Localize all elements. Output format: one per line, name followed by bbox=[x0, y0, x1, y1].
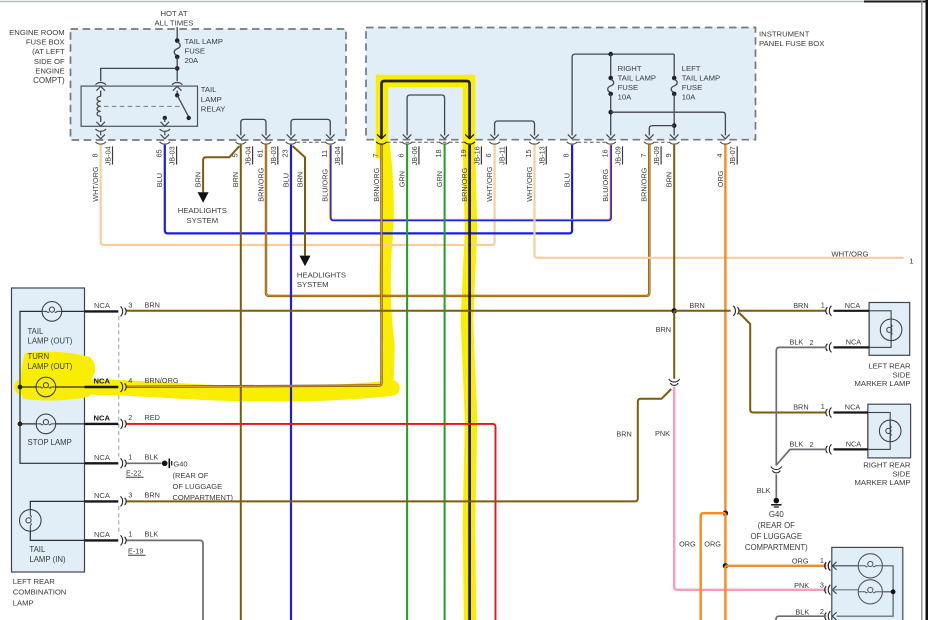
svg-text:1: 1 bbox=[128, 453, 132, 462]
svg-text:TURN: TURN bbox=[28, 352, 50, 361]
wire BLU engine pin65 to IP pin8 bbox=[165, 145, 572, 234]
svg-text:MARKER LAMP: MARKER LAMP bbox=[855, 478, 911, 487]
svg-text:TAIL: TAIL bbox=[28, 327, 45, 336]
svg-text:JB-16: JB-16 bbox=[472, 146, 481, 165]
bulb stop lamp bbox=[36, 414, 56, 434]
svg-text:2: 2 bbox=[820, 607, 824, 616]
svg-text:RED: RED bbox=[145, 413, 160, 422]
svg-text:BLK: BLK bbox=[795, 607, 809, 616]
lamp connector pin 3 BRN bbox=[85, 310, 119, 312]
svg-text:STOP LAMP: STOP LAMP bbox=[28, 438, 72, 447]
wire BRN junction to inline connector bbox=[673, 311, 675, 379]
node fuse feed junction bbox=[608, 52, 613, 57]
lamp internal common wire bbox=[20, 311, 85, 463]
svg-text:(REAR OF: (REAR OF bbox=[758, 521, 795, 530]
inline splice BLK bbox=[771, 467, 782, 470]
svg-text:JB-04: JB-04 bbox=[104, 146, 113, 165]
node right fuse output junction bbox=[608, 110, 613, 115]
svg-text:LEFT: LEFT bbox=[682, 64, 701, 73]
svg-text:GRN: GRN bbox=[435, 171, 444, 187]
page border right bbox=[921, 0, 923, 620]
svg-text:BRN: BRN bbox=[793, 403, 808, 412]
wire to pin 7 jb09 bbox=[649, 126, 674, 136]
wire WHT/ORG engine pin8 to IP pin6 JB-11 bbox=[101, 145, 495, 245]
svg-text:RELAY: RELAY bbox=[201, 104, 226, 113]
wire BLK bottom lamp bbox=[776, 616, 826, 620]
left marker pin1 connector bbox=[829, 306, 831, 316]
wire BRN/ORG IP pin19 down traced black bbox=[468, 145, 471, 620]
relay pin top coil side bbox=[96, 82, 106, 84]
connector in BRN marker feed bbox=[733, 306, 735, 316]
boundary pin 8 IP bbox=[567, 142, 577, 144]
svg-text:JB-11: JB-11 bbox=[497, 146, 506, 165]
svg-text:COMBINATION: COMBINATION bbox=[13, 588, 67, 597]
svg-text:HEADLIGHTS: HEADLIGHTS bbox=[297, 270, 346, 279]
svg-text:FUSE: FUSE bbox=[185, 46, 206, 55]
wire RED stop lamp bbox=[127, 424, 496, 620]
svg-text:BRN/ORG: BRN/ORG bbox=[256, 167, 265, 201]
relay pin bottom switch side bbox=[161, 122, 170, 126]
svg-text:8: 8 bbox=[562, 153, 571, 157]
svg-text:2: 2 bbox=[128, 413, 132, 422]
wire BRN/ORG IP pin7 to turn lamp (highlighted circuit) bbox=[127, 145, 382, 387]
wire BRN tail lamp in bus bbox=[127, 389, 672, 501]
svg-text:G40: G40 bbox=[769, 510, 784, 519]
svg-text:SIDE: SIDE bbox=[893, 469, 911, 478]
boundary pin 7 IP bbox=[376, 142, 386, 144]
svg-text:16: 16 bbox=[600, 149, 609, 157]
boundary pin 7 jb09 IP bbox=[644, 142, 654, 144]
svg-text:RIGHT: RIGHT bbox=[618, 64, 642, 73]
svg-text:10A: 10A bbox=[618, 93, 633, 102]
svg-text:SYSTEM: SYSTEM bbox=[186, 216, 218, 225]
svg-text:1: 1 bbox=[821, 300, 825, 309]
svg-text:NCA: NCA bbox=[94, 491, 111, 500]
svg-text:OF LUGGAGE: OF LUGGAGE bbox=[751, 532, 803, 541]
wire BRN pin5 down bbox=[240, 145, 242, 620]
left rear combination lamp box bbox=[12, 288, 85, 572]
svg-text:9: 9 bbox=[664, 153, 673, 157]
bulb tail lamp out bbox=[42, 302, 62, 322]
svg-text:23: 23 bbox=[281, 149, 290, 157]
boundary pin 18 IP bbox=[439, 142, 449, 144]
svg-text:10A: 10A bbox=[682, 93, 697, 102]
wire ORG down off page bbox=[724, 566, 726, 620]
svg-text:TAIL LAMP: TAIL LAMP bbox=[618, 73, 656, 82]
jumper pins 23-11 bbox=[291, 119, 330, 135]
svg-text:HOT AT: HOT AT bbox=[160, 9, 187, 18]
svg-text:WHT/ORG: WHT/ORG bbox=[831, 249, 868, 258]
svg-text:NCA: NCA bbox=[94, 377, 111, 386]
svg-text:SYSTEM: SYSTEM bbox=[297, 280, 329, 289]
svg-text:4: 4 bbox=[128, 376, 132, 385]
bulb right marker bbox=[879, 420, 901, 442]
svg-text:61: 61 bbox=[256, 149, 265, 157]
svg-text:BRN: BRN bbox=[145, 490, 160, 499]
svg-text:NCA: NCA bbox=[845, 301, 861, 310]
svg-text:JB-09: JB-09 bbox=[652, 146, 661, 165]
bulb tail lamp in bbox=[20, 510, 42, 532]
svg-text:6: 6 bbox=[484, 153, 493, 157]
boundary pin 16 IP bbox=[606, 142, 616, 144]
svg-text:BRN/ORG: BRN/ORG bbox=[640, 167, 649, 201]
ground G40 at E-22 bbox=[162, 461, 168, 467]
svg-text:3: 3 bbox=[128, 491, 132, 500]
wire PNK down to right lamp bbox=[674, 387, 826, 590]
wire BLK left marker to splice bbox=[776, 347, 826, 465]
wire BLK E-19 down bbox=[127, 540, 204, 620]
engine room fuse box bbox=[71, 29, 347, 140]
svg-text:LAMP (IN): LAMP (IN) bbox=[29, 555, 66, 564]
boundary arrow pin 16 bbox=[606, 134, 615, 138]
svg-text:MARKER LAMP: MARKER LAMP bbox=[855, 379, 911, 388]
instrument panel fuse box bbox=[366, 28, 756, 140]
lamp internal wiring bottom right bbox=[837, 566, 894, 616]
svg-text:TAIL: TAIL bbox=[201, 85, 217, 94]
svg-text:TAIL: TAIL bbox=[29, 545, 46, 554]
wire ORG continue down bbox=[724, 513, 726, 566]
svg-text:GRN: GRN bbox=[398, 171, 407, 187]
left rear side marker lamp box bbox=[869, 303, 910, 356]
svg-text:LAMP (OUT): LAMP (OUT) bbox=[28, 336, 73, 345]
connector bracket pins 7-9 IP bbox=[655, 141, 669, 143]
svg-text:JB-04: JB-04 bbox=[333, 146, 342, 165]
svg-text:19: 19 bbox=[459, 149, 468, 157]
svg-text:18: 18 bbox=[434, 149, 443, 157]
boundary arrow pin 9 bbox=[670, 134, 679, 138]
relay actuation dashed link bbox=[104, 105, 180, 107]
wire WHT/ORG IP pin15 to right edge bbox=[535, 145, 904, 258]
svg-text:HEADLIGHTS: HEADLIGHTS bbox=[178, 206, 227, 215]
jumper pins 6-18 bbox=[407, 95, 445, 135]
svg-text:WHT/ORG: WHT/ORG bbox=[91, 166, 100, 202]
lamp pin3 PNK connector bbox=[828, 585, 830, 595]
boundary pin 9 IP bbox=[669, 142, 679, 144]
svg-text:BLK: BLK bbox=[145, 529, 159, 538]
svg-text:ORG: ORG bbox=[716, 170, 725, 187]
svg-text:NCA: NCA bbox=[846, 440, 862, 449]
wire IP fuse feed bbox=[572, 54, 674, 135]
svg-text:E-22: E-22 bbox=[126, 468, 141, 477]
svg-text:FUSE: FUSE bbox=[618, 83, 639, 92]
svg-text:3: 3 bbox=[820, 581, 824, 590]
fuse F1 tail lamp fuse 20A bbox=[175, 38, 180, 43]
svg-text:ORG: ORG bbox=[679, 539, 696, 548]
svg-text:NCA: NCA bbox=[94, 301, 111, 310]
boundary pin 11 engine bbox=[325, 142, 335, 144]
inline connector splice bbox=[669, 379, 680, 382]
jumper traced pins 7-19 (thick black) bbox=[382, 81, 470, 139]
bulb bottom right 1 bbox=[858, 554, 882, 578]
wire BRN tail lamp out to junction bbox=[127, 310, 675, 312]
wire BLK splice to ground bbox=[775, 475, 777, 498]
node left fuse output junction bbox=[672, 123, 677, 128]
boundary pin 6 jb06 IP bbox=[402, 142, 412, 144]
svg-text:LAMP: LAMP bbox=[201, 95, 222, 104]
yellow highlight horizontal band to turn lamp bbox=[22, 387, 392, 394]
connector bracket pins 7-19 IP bbox=[387, 141, 464, 143]
lamp connector pin 1 BLK bbox=[85, 462, 119, 464]
wire BRN IP pin9 down to junction bbox=[673, 145, 675, 311]
svg-text:65: 65 bbox=[154, 149, 163, 157]
svg-text:WHT/ORG: WHT/ORG bbox=[485, 166, 494, 202]
svg-text:PNK: PNK bbox=[794, 581, 809, 590]
svg-text:BRN: BRN bbox=[793, 301, 808, 310]
svg-text:20A: 20A bbox=[185, 56, 200, 65]
boundary pin 6 jb11 IP bbox=[489, 142, 499, 144]
wire BLU/ORG engine pin11 to IP pin16 bbox=[330, 145, 610, 220]
ground G40 rear luggage bbox=[774, 498, 780, 504]
wire branch to relay coil bbox=[101, 68, 178, 81]
svg-text:FUSE BOX: FUSE BOX bbox=[26, 38, 65, 47]
boundary pin 19 IP bbox=[464, 142, 474, 144]
svg-text:LAMP (OUT): LAMP (OUT) bbox=[28, 362, 73, 371]
svg-text:BLU: BLU bbox=[155, 173, 164, 187]
svg-text:2: 2 bbox=[810, 338, 814, 347]
wire BRN to left marker pin1 bbox=[739, 310, 826, 312]
lamp connector dashed housing line bbox=[118, 316, 120, 458]
wire BLU pin23 down bbox=[290, 145, 292, 620]
wire ORG branch left down bbox=[701, 513, 726, 620]
svg-text:3: 3 bbox=[128, 301, 132, 310]
svg-text:OF LUGGAGE: OF LUGGAGE bbox=[173, 482, 223, 491]
svg-text:8: 8 bbox=[90, 153, 99, 157]
boundary pin 61 engine bbox=[261, 142, 271, 144]
svg-text:RIGHT REAR: RIGHT REAR bbox=[863, 461, 911, 470]
svg-text:E-19: E-19 bbox=[128, 546, 143, 555]
bulb left marker bbox=[880, 319, 902, 341]
wire GRN IP pin18 down bbox=[444, 145, 446, 620]
svg-text:BRN: BRN bbox=[616, 429, 631, 438]
svg-text:PANEL FUSE BOX: PANEL FUSE BOX bbox=[759, 39, 824, 48]
wire BRN branch to right marker pin1 bbox=[739, 313, 826, 413]
svg-text:LAMP: LAMP bbox=[13, 598, 34, 607]
svg-text:JB-07: JB-07 bbox=[728, 146, 737, 165]
relay pin bottom coil side bbox=[96, 122, 105, 126]
svg-text:JB-06: JB-06 bbox=[410, 146, 419, 165]
boundary pin 4 IP bbox=[720, 142, 730, 144]
left marker pin2 connector bbox=[829, 342, 831, 352]
right marker pin2 connector bbox=[829, 444, 831, 454]
right rear combination lamp box bbox=[832, 547, 903, 620]
boundary pin 65 engine bbox=[161, 134, 170, 138]
svg-text:COMPARTMENT): COMPARTMENT) bbox=[745, 543, 808, 552]
svg-text:7: 7 bbox=[639, 153, 648, 157]
svg-text:BLU/ORG: BLU/ORG bbox=[601, 169, 610, 202]
svg-text:11: 11 bbox=[320, 150, 329, 158]
svg-text:BRN: BRN bbox=[194, 172, 203, 187]
svg-text:COMPT): COMPT) bbox=[33, 76, 65, 85]
svg-text:JB-09: JB-09 bbox=[614, 146, 623, 165]
svg-text:ORG: ORG bbox=[704, 539, 721, 548]
svg-text:SIDE OF: SIDE OF bbox=[34, 57, 65, 66]
lamp connector pin 2 RED bbox=[85, 423, 119, 425]
svg-text:ENGINE: ENGINE bbox=[35, 66, 64, 75]
lamp pin2 BLK connector bbox=[828, 611, 830, 620]
svg-text:BRN: BRN bbox=[295, 172, 304, 187]
svg-text:JB-13: JB-13 bbox=[537, 146, 546, 165]
right marker pin1 connector bbox=[829, 408, 831, 418]
svg-text:ALL TIMES: ALL TIMES bbox=[155, 19, 194, 28]
svg-text:BRN: BRN bbox=[145, 300, 160, 309]
jumper pins 6-15 bbox=[495, 121, 535, 135]
lamp connector pin 4 BRN/ORG bbox=[85, 386, 119, 388]
connector bracket pins 8-16 IP bbox=[578, 141, 605, 143]
wire to pin 4 bbox=[611, 112, 726, 135]
lamp connector pin 3 BRN bbox=[85, 500, 119, 502]
svg-text:1: 1 bbox=[820, 556, 824, 565]
boundary pin 5 engine bbox=[236, 142, 246, 144]
yellow highlight trace around jumper and down pin 19 wire bbox=[382, 81, 471, 620]
svg-text:JB-03: JB-03 bbox=[168, 146, 177, 165]
boundary pin 23 engine bbox=[286, 142, 296, 144]
wire BLK right marker to splice bbox=[777, 449, 826, 464]
fuse F2 right tail lamp fuse 10A bbox=[610, 54, 612, 78]
svg-text:BRN: BRN bbox=[689, 301, 704, 310]
node fuse output junction bbox=[175, 66, 180, 71]
svg-text:(AT LEFT: (AT LEFT bbox=[32, 47, 65, 56]
arrow to headlights system 1 bbox=[198, 192, 209, 203]
svg-text:BLK: BLK bbox=[790, 338, 804, 347]
svg-text:INSTRUMENT: INSTRUMENT bbox=[759, 30, 810, 39]
wire GRN IP pin6 down bbox=[406, 145, 408, 620]
svg-text:LEFT REAR: LEFT REAR bbox=[13, 577, 56, 586]
yellow highlight over turn lamp label bbox=[21, 352, 95, 401]
svg-text:LEFT REAR: LEFT REAR bbox=[868, 362, 911, 371]
relay coil bbox=[100, 91, 102, 97]
svg-text:PNK: PNK bbox=[655, 429, 670, 438]
boundary pin 15 IP bbox=[529, 142, 539, 144]
wire BRN junction right to connector bbox=[674, 310, 730, 312]
svg-text:6: 6 bbox=[397, 153, 406, 157]
svg-text:BLK: BLK bbox=[757, 486, 771, 495]
wire BRN/ORG engine pin61 to IP pin7 JB-09 bbox=[266, 145, 649, 296]
svg-text:(REAR OF: (REAR OF bbox=[173, 471, 209, 480]
relay K1 tail lamp relay box bbox=[81, 86, 197, 126]
svg-text:4: 4 bbox=[715, 153, 724, 157]
svg-text:BLK: BLK bbox=[145, 452, 159, 461]
svg-text:BRN/ORG: BRN/ORG bbox=[145, 376, 179, 385]
node ORG junction 1 bbox=[723, 511, 728, 516]
svg-text:G40: G40 bbox=[173, 460, 187, 469]
jumper pins 5-61 bbox=[241, 119, 266, 135]
wire ORG IP pin4 down bbox=[724, 145, 726, 513]
svg-text:WHT/ORG: WHT/ORG bbox=[525, 166, 534, 202]
svg-text:BLK: BLK bbox=[790, 440, 804, 449]
svg-text:JB-03: JB-03 bbox=[269, 146, 278, 165]
svg-text:1: 1 bbox=[821, 402, 825, 411]
node ORG junction 2 bbox=[723, 563, 728, 568]
bulb bottom right 2 bbox=[858, 580, 882, 604]
relay pin top switch side bbox=[172, 82, 182, 84]
svg-text:NCA: NCA bbox=[846, 338, 862, 347]
fuse F3 left tail lamp fuse 10A bbox=[673, 54, 675, 78]
svg-text:BRN: BRN bbox=[665, 172, 674, 187]
wire hot feed bbox=[176, 27, 178, 41]
svg-text:ORG: ORG bbox=[792, 557, 809, 566]
svg-text:FUSE: FUSE bbox=[682, 83, 703, 92]
wire BRN pin5 branch to headlights bbox=[203, 146, 239, 192]
svg-text:BRN: BRN bbox=[231, 172, 240, 187]
svg-text:TAIL LAMP: TAIL LAMP bbox=[185, 37, 223, 46]
svg-text:BRN/ORG: BRN/ORG bbox=[460, 167, 469, 201]
svg-text:2: 2 bbox=[810, 440, 814, 449]
arrow to headlights system 2 bbox=[300, 256, 311, 267]
svg-text:ENGINE ROOM: ENGINE ROOM bbox=[9, 28, 65, 37]
wire BRN pin23 branch to headlights bbox=[293, 146, 306, 256]
svg-text:BLU: BLU bbox=[281, 173, 290, 187]
svg-text:1: 1 bbox=[909, 256, 913, 265]
relay switch bbox=[176, 91, 178, 96]
connector bracket pins 23-11 bbox=[297, 141, 326, 143]
lamp connector pin 1 BLK bbox=[85, 539, 119, 541]
svg-text:NCA: NCA bbox=[94, 414, 111, 423]
boundary pin 8 engine bbox=[96, 134, 105, 138]
svg-text:BLU/ORG: BLU/ORG bbox=[321, 169, 330, 202]
svg-text:SIDE: SIDE bbox=[893, 370, 911, 379]
page border top bbox=[0, 1, 864, 3]
wire fuse to junction bbox=[176, 57, 178, 81]
svg-text:NCA: NCA bbox=[94, 530, 111, 539]
svg-text:NCA: NCA bbox=[845, 403, 861, 412]
svg-text:BLU: BLU bbox=[563, 173, 572, 187]
svg-text:NCA: NCA bbox=[94, 453, 111, 462]
right rear side marker lamp box bbox=[868, 404, 911, 458]
svg-text:BRN: BRN bbox=[656, 325, 671, 334]
svg-text:1: 1 bbox=[128, 530, 132, 539]
svg-text:BRN/ORG: BRN/ORG bbox=[372, 167, 381, 201]
wire BLK E-22 to ground bbox=[127, 462, 162, 464]
node BRN junction bbox=[672, 308, 677, 313]
svg-text:7: 7 bbox=[371, 153, 380, 157]
svg-text:JB-04: JB-04 bbox=[244, 146, 253, 165]
yellow highlight down pin 7 wire bbox=[384, 145, 389, 380]
svg-text:TAIL LAMP: TAIL LAMP bbox=[682, 73, 720, 82]
lamp pin1 ORG connector bbox=[828, 561, 830, 571]
svg-text:15: 15 bbox=[524, 149, 533, 157]
wire ORG to lamp pin1 bbox=[725, 565, 826, 567]
